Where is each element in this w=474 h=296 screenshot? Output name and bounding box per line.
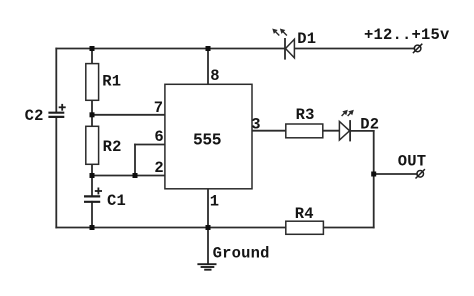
- junction top rail R1 branch: [90, 46, 95, 51]
- svg-text:Ground: Ground: [213, 244, 270, 262]
- svg-text:R2: R2: [103, 138, 122, 156]
- capacitor C2 plates: [48, 113, 64, 117]
- svg-text:2: 2: [154, 159, 164, 177]
- wire top rail left segment (56,48.5)-(92,48.5): [56, 48, 92, 50]
- resistor R2: [86, 126, 99, 164]
- junction bottom rail C1: [90, 225, 95, 230]
- wire pin1 (208,188.8)-(208,227.5): [207, 189, 209, 228]
- wire D1 anode to +V terminal (294.5,48.5)-(414,48.5): [295, 48, 415, 50]
- wire OUT (374,174)-(417,174): [374, 173, 417, 175]
- svg-text:8: 8: [210, 67, 220, 85]
- wire pin3 (252,130.5)-(286,130.5): [252, 130, 286, 132]
- diode D2 LED triangle: [339, 122, 349, 141]
- wire C1 bottom to bottom rail (92,202)-(92,227.5): [91, 202, 93, 228]
- capacitor C1 plus sign: [95, 188, 102, 195]
- terminal OUT circle with slash: [416, 169, 425, 178]
- wire R4 right to corner (323,227.5)-(374,227.5): [323, 227, 373, 229]
- svg-text:C2: C2: [25, 107, 44, 125]
- junction right vertical OUT: [371, 172, 376, 177]
- wire pin8 (208,48.5)-(208,84.3): [207, 49, 209, 85]
- svg-text:7: 7: [154, 99, 164, 117]
- diode D1 LED cathode bar: [284, 39, 286, 59]
- junction pin7 wire R1-R2: [90, 112, 95, 117]
- wire D2 to right corner (350,131)-(374,131): [350, 130, 374, 132]
- svg-text:R1: R1: [102, 73, 121, 91]
- wire left vertical lower (56,117)-(56,227.5): [55, 117, 57, 228]
- junction pin2 wire pin6 branch: [133, 173, 138, 178]
- capacitor C2 plus sign: [59, 104, 66, 111]
- junction pin2 wire R2-C1: [90, 173, 95, 178]
- svg-text:555: 555: [193, 131, 221, 150]
- svg-text:+12..+15v: +12..+15v: [364, 26, 450, 44]
- wire bottom rail (56,227.5)-(286,227.5): [56, 227, 285, 229]
- svg-text:OUT: OUT: [398, 153, 427, 171]
- wire left vertical upper (56,48.5)-(56,112): [55, 49, 57, 113]
- svg-text:R4: R4: [295, 205, 314, 223]
- resistor R3: [286, 124, 323, 138]
- wire ground stem (208,227.5)-(208,264): [207, 228, 209, 264]
- diode D1 LED triangle: [286, 39, 295, 58]
- wire pin2 (92,175.5)-(165,175.5): [92, 175, 165, 177]
- diode D1 light arrows: [273, 30, 287, 36]
- wire pin6 horizontal (135,144.5)-(165,144.5): [135, 144, 165, 146]
- wire pin6 to pin2 vertical (135,144.5)-(135,175.5): [134, 145, 136, 176]
- wire R1 top (92,48.5)-(92,63.6): [91, 49, 93, 64]
- svg-text:D1: D1: [297, 30, 316, 48]
- op-amp U1 555 timer IC box: [165, 84, 252, 189]
- svg-text:D2: D2: [360, 115, 379, 133]
- wire R2 bottom to C1 (92,164.3)-(92,196): [91, 164, 93, 196]
- terminal +V supply circle with slash: [413, 44, 422, 53]
- wire R3 to D2 (323,130.8)-(339.5,130.8): [323, 130, 340, 132]
- ground symbol bars: [197, 264, 216, 270]
- svg-text:1: 1: [210, 193, 220, 211]
- wire top rail middle segment (92,48.5)-(208,48.5): [92, 48, 208, 50]
- wire top rail right segment (208,48.5)-(285,48.5) to D1 cathode: [208, 48, 285, 50]
- wire right vertical (374,131)-(374,227.5): [373, 131, 375, 228]
- svg-text:3: 3: [251, 116, 261, 134]
- junction bottom rail ground: [206, 225, 211, 230]
- resistor R1: [86, 64, 99, 101]
- capacitor C1 plates: [84, 196, 100, 201]
- svg-text:R3: R3: [296, 106, 315, 124]
- junction top rail pin8: [206, 46, 211, 51]
- diode D2 LED cathode bar: [349, 121, 351, 141]
- svg-text:6: 6: [154, 128, 164, 146]
- diode D2 light arrows: [342, 111, 353, 116]
- wire pin7 (92,114.8)-(165,114.8): [92, 114, 165, 116]
- svg-text:C1: C1: [107, 192, 126, 210]
- resistor R4: [286, 221, 324, 234]
- wire R1 bottom to R2 top (92,100.3)-(92,126.3): [91, 100, 93, 126]
